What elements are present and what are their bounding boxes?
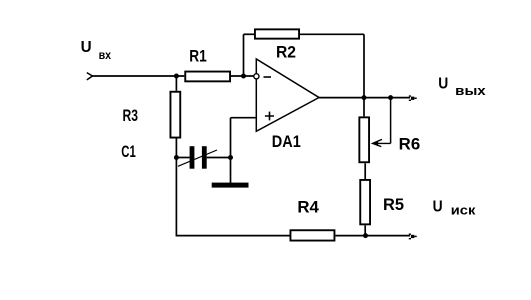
wire: feedback right vertical to output node	[363, 34, 365, 97]
wire: R6 wiper vertical	[390, 98, 392, 144]
wire: input node down to R3	[175, 76, 177, 91]
svg-text:C1: C1	[121, 143, 136, 161]
capacitor C1 plates	[190, 146, 207, 169]
op-amp inverting input circle	[254, 74, 259, 79]
plus sign	[265, 112, 274, 121]
svg-text:U: U	[438, 76, 448, 93]
wire: R6 wiper horizontal with arrow	[373, 139, 391, 146]
resistor R5	[360, 180, 370, 224]
minus sign	[264, 76, 272, 78]
ground	[212, 183, 249, 188]
node: R1/R2 junction	[241, 74, 246, 79]
node: R5/R4 junction	[363, 233, 368, 238]
node: output/R6 junction	[362, 95, 367, 100]
node: R3/C1 junction	[174, 155, 179, 160]
svg-text:вх: вх	[99, 48, 112, 62]
svg-text:вых: вых	[455, 83, 486, 98]
arrow: U_isk output	[409, 234, 417, 239]
wire: bottom rail to R4	[176, 235, 290, 237]
node: input/R3 junction	[174, 74, 179, 79]
wire: op-amp output	[319, 97, 410, 99]
wire: R6 to R5	[364, 163, 366, 179]
svg-text:R3: R3	[123, 107, 139, 125]
node: output/wiper junction	[388, 95, 393, 100]
capacitor C1 variable diagonal	[178, 150, 217, 166]
node: C1 right junction	[228, 155, 233, 160]
wire: output node down to R6 top	[363, 98, 365, 117]
input terminal arrow	[87, 73, 93, 80]
svg-text:U: U	[81, 39, 92, 56]
resistor R1	[185, 72, 230, 82]
svg-text:R1: R1	[189, 48, 207, 66]
wire: vertical to ground/C1 node	[230, 118, 232, 183]
wire: input to R1	[93, 75, 185, 77]
wire: C1 right lead	[207, 157, 231, 159]
wire: C1 left lead	[176, 157, 189, 159]
svg-text:иск: иск	[451, 203, 476, 218]
resistor R6	[359, 117, 369, 162]
wire: R3 bottom to C1 node	[175, 139, 177, 158]
svg-text:R4: R4	[297, 199, 319, 217]
svg-text:U: U	[433, 198, 443, 215]
svg-text:R6: R6	[399, 136, 421, 154]
svg-text:R2: R2	[276, 44, 296, 62]
wire: R5 bottom lead	[364, 225, 366, 235]
wire: R1 to op-amp inverting input	[231, 75, 255, 77]
resistor R2	[255, 29, 299, 38]
wire: R2 right to feedback corner	[300, 33, 364, 35]
wire: non-inverting input	[231, 117, 257, 119]
svg-text:DA1: DA1	[272, 133, 301, 151]
wire: feedback to R2 left	[244, 33, 255, 35]
resistor R4	[290, 230, 334, 240]
svg-text:R5: R5	[383, 196, 404, 214]
wire: C1 node down to bottom rail	[175, 158, 177, 236]
op-amp DA1 triangle	[256, 59, 319, 131]
arrow: U_vyh output	[409, 96, 417, 100]
wire: R4 to bottom arrow	[335, 235, 410, 237]
wire: feedback left vertical	[243, 34, 245, 76]
resistor R3	[170, 92, 180, 138]
